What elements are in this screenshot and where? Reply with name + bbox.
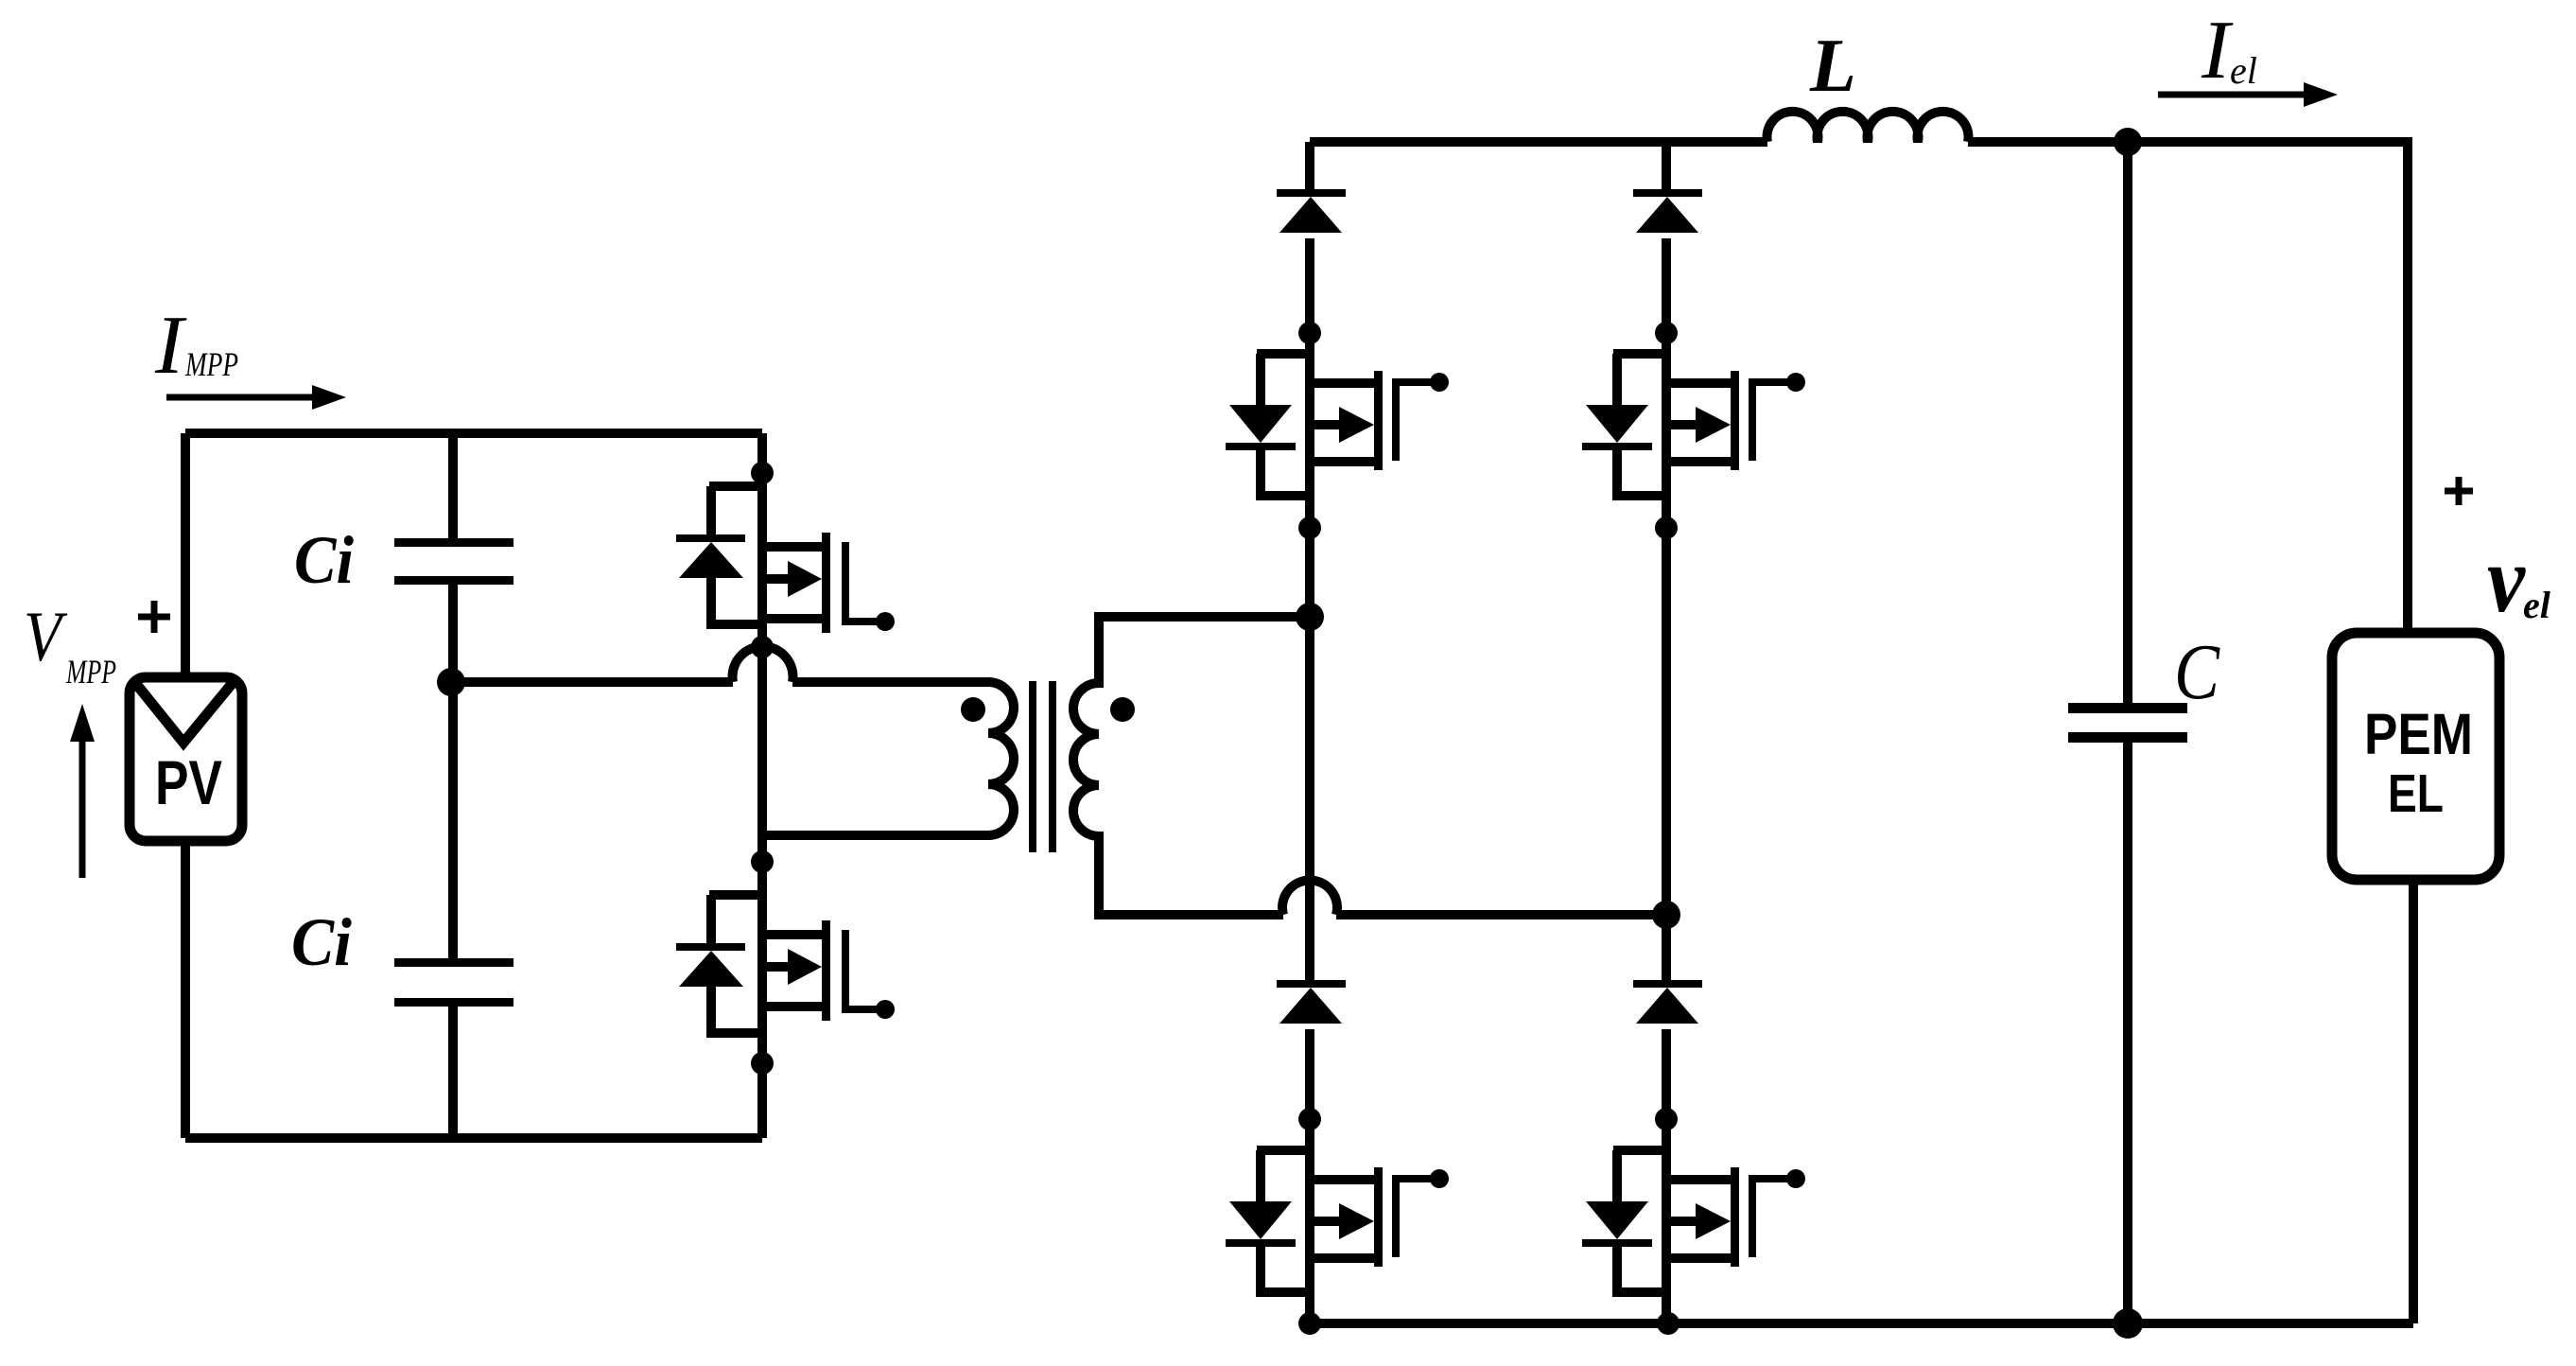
wire: bridge right leg upper segment — [1662, 142, 1671, 189]
diode D2 (pointing up) — [1633, 189, 1702, 233]
node: S4 top terminal dot — [1655, 1108, 1678, 1130]
svg-text:I: I — [154, 300, 187, 392]
svg-text:C: C — [2174, 628, 2220, 716]
wire: secondary bottom lead (hops over left bridge leg) — [1282, 880, 1666, 915]
node: filter capacitor top junction — [2114, 128, 2142, 156]
MOSFET S2 body-diode (anti-parallel, pointing down) — [1582, 354, 1666, 496]
node: bottom rail right bridge leg — [1657, 1312, 1680, 1335]
MOSFET Q2 body-diode (anti-parallel, pointing up) — [676, 895, 762, 1033]
PEM EL electrolyzer box — [2332, 633, 2499, 880]
svg-text:Ci: Ci — [291, 904, 352, 980]
capacitor Ci (upper) — [394, 538, 513, 585]
MOSFET S2 (N-channel, drain top / source bottom) — [1666, 371, 1739, 470]
svg-text:MPP: MPP — [184, 345, 238, 383]
label + (PV positive) — [138, 601, 170, 633]
svg-text:PV: PV — [155, 747, 222, 817]
MOSFET Q2 (N-channel, drain top / source bottom) — [762, 920, 830, 1021]
MOSFET Q1 (N-channel, drain top / source bottom) — [762, 533, 830, 633]
svg-text:I: I — [2201, 5, 2234, 96]
wire: PV negative lead down to bottom rail — [181, 841, 190, 1138]
node: Q2 source terminal dot — [751, 1052, 774, 1075]
node: S3 top terminal dot — [1298, 1108, 1321, 1130]
transformer secondary polarity dot — [1110, 697, 1135, 722]
node: bottom rail left bridge leg — [1298, 1312, 1321, 1335]
MOSFET S4 body-diode (anti-parallel, pointing down) — [1582, 1150, 1666, 1292]
wire: bottom output rail — [1310, 1319, 2413, 1328]
wire: capacitor midpoint to transformer primary (hops over half-bridge leg) — [453, 646, 792, 682]
wire: capacitor C lower to bottom rail — [2123, 743, 2132, 1323]
transformer primary winding — [762, 682, 1014, 835]
MOSFET Q1 gate lead — [845, 542, 895, 631]
transformer secondary winding — [1073, 617, 1310, 915]
MOSFET S3 (N-channel, drain top / source bottom) — [1310, 1167, 1383, 1267]
svg-text:el: el — [2523, 584, 2551, 626]
node: S2 top terminal dot — [1655, 322, 1678, 344]
MOSFET S2 gate lead — [1752, 373, 1805, 461]
svg-text:el: el — [2230, 49, 2257, 92]
transformer core — [1033, 681, 1053, 852]
MOSFET S3 body-diode (anti-parallel, pointing down) — [1226, 1150, 1310, 1292]
wire: top rail from inductor to PEM EL — [1968, 142, 2408, 633]
wire: bottom rail from PV to half-bridge — [185, 1133, 762, 1143]
wire: half-bridge leg (drain rail to source rail) — [757, 433, 767, 1138]
svg-text:v: v — [2487, 526, 2526, 632]
MOSFET Q1 body-diode (anti-parallel, pointing up) — [676, 486, 762, 624]
wire: PV positive lead up to top rail — [181, 433, 190, 677]
wire: between upper Ci and midpoint — [448, 585, 458, 682]
arrow: I_MPP current direction — [166, 385, 346, 410]
inductor L — [1767, 112, 1969, 142]
svg-text:Ci: Ci — [294, 522, 354, 598]
MOSFET S1 gate lead — [1396, 373, 1449, 461]
diode D4 (pointing up) — [1633, 980, 1702, 1024]
node: Q2 drain terminal dot — [751, 850, 774, 873]
transformer primary polarity dot — [961, 697, 985, 722]
node: bottom rail capacitor C junction — [2113, 1308, 2143, 1339]
arrow: V_MPP polarity (up) — [70, 704, 95, 878]
wire: lower Ci to bottom rail — [448, 1007, 458, 1138]
wire: input capacitor branch upper — [448, 433, 458, 538]
svg-text:EL: EL — [2388, 763, 2444, 824]
wire: top rail from PV to half-bridge — [185, 429, 762, 438]
wire: capacitor C branch upper — [2123, 142, 2132, 703]
node: Q1 source terminal dot — [751, 636, 774, 658]
wire: between midpoint and lower Ci — [448, 682, 458, 958]
node: secondary bottom to right bridge leg — [1652, 901, 1680, 929]
MOSFET S1 (N-channel, drain top / source bottom) — [1310, 371, 1383, 470]
MOSFET S3 gate lead — [1396, 1169, 1449, 1257]
wire: right leg between D4 and S4 / bottom rail — [1662, 1029, 1671, 1323]
diode D3 (pointing up) — [1277, 980, 1346, 1024]
arrow: I_el current direction — [2158, 82, 2338, 107]
wire: left leg between D3 and S3 / bottom rail — [1305, 1029, 1314, 1323]
label + (PEM EL positive) — [2445, 477, 2473, 505]
svg-text:MPP: MPP — [65, 653, 116, 691]
wire: right leg between D2 and S2/secondary/D4 — [1662, 238, 1671, 980]
wire: top output rail (bridge to inductor) — [1310, 137, 1767, 147]
node: Q1 drain terminal dot — [751, 462, 774, 484]
MOSFET S1 body-diode (anti-parallel, pointing down) — [1226, 354, 1310, 496]
diode D1 (pointing up) — [1277, 189, 1346, 233]
node: secondary top to left bridge leg — [1296, 603, 1324, 631]
svg-text:L: L — [1809, 25, 1856, 108]
MOSFET Q2 gate lead — [845, 930, 895, 1019]
capacitor C — [2068, 703, 2187, 743]
MOSFET S4 (N-channel, drain top / source bottom) — [1666, 1167, 1739, 1267]
wire: PEM EL bottom lead — [2409, 880, 2418, 1323]
PV source box — [130, 677, 242, 841]
node: capacitor midpoint junction — [437, 668, 465, 696]
node: S1 bottom terminal dot — [1298, 517, 1321, 539]
wire: left leg between D1 and S1/secondary/D3 — [1305, 238, 1314, 980]
node: S1 top terminal dot — [1298, 322, 1321, 344]
MOSFET S4 gate lead — [1752, 1169, 1805, 1257]
capacitor Ci (lower) — [394, 958, 513, 1007]
node: S2 bottom terminal dot — [1655, 517, 1678, 539]
wire: bridge left leg upper segment — [1305, 142, 1314, 189]
svg-text:PEM: PEM — [2364, 702, 2473, 766]
